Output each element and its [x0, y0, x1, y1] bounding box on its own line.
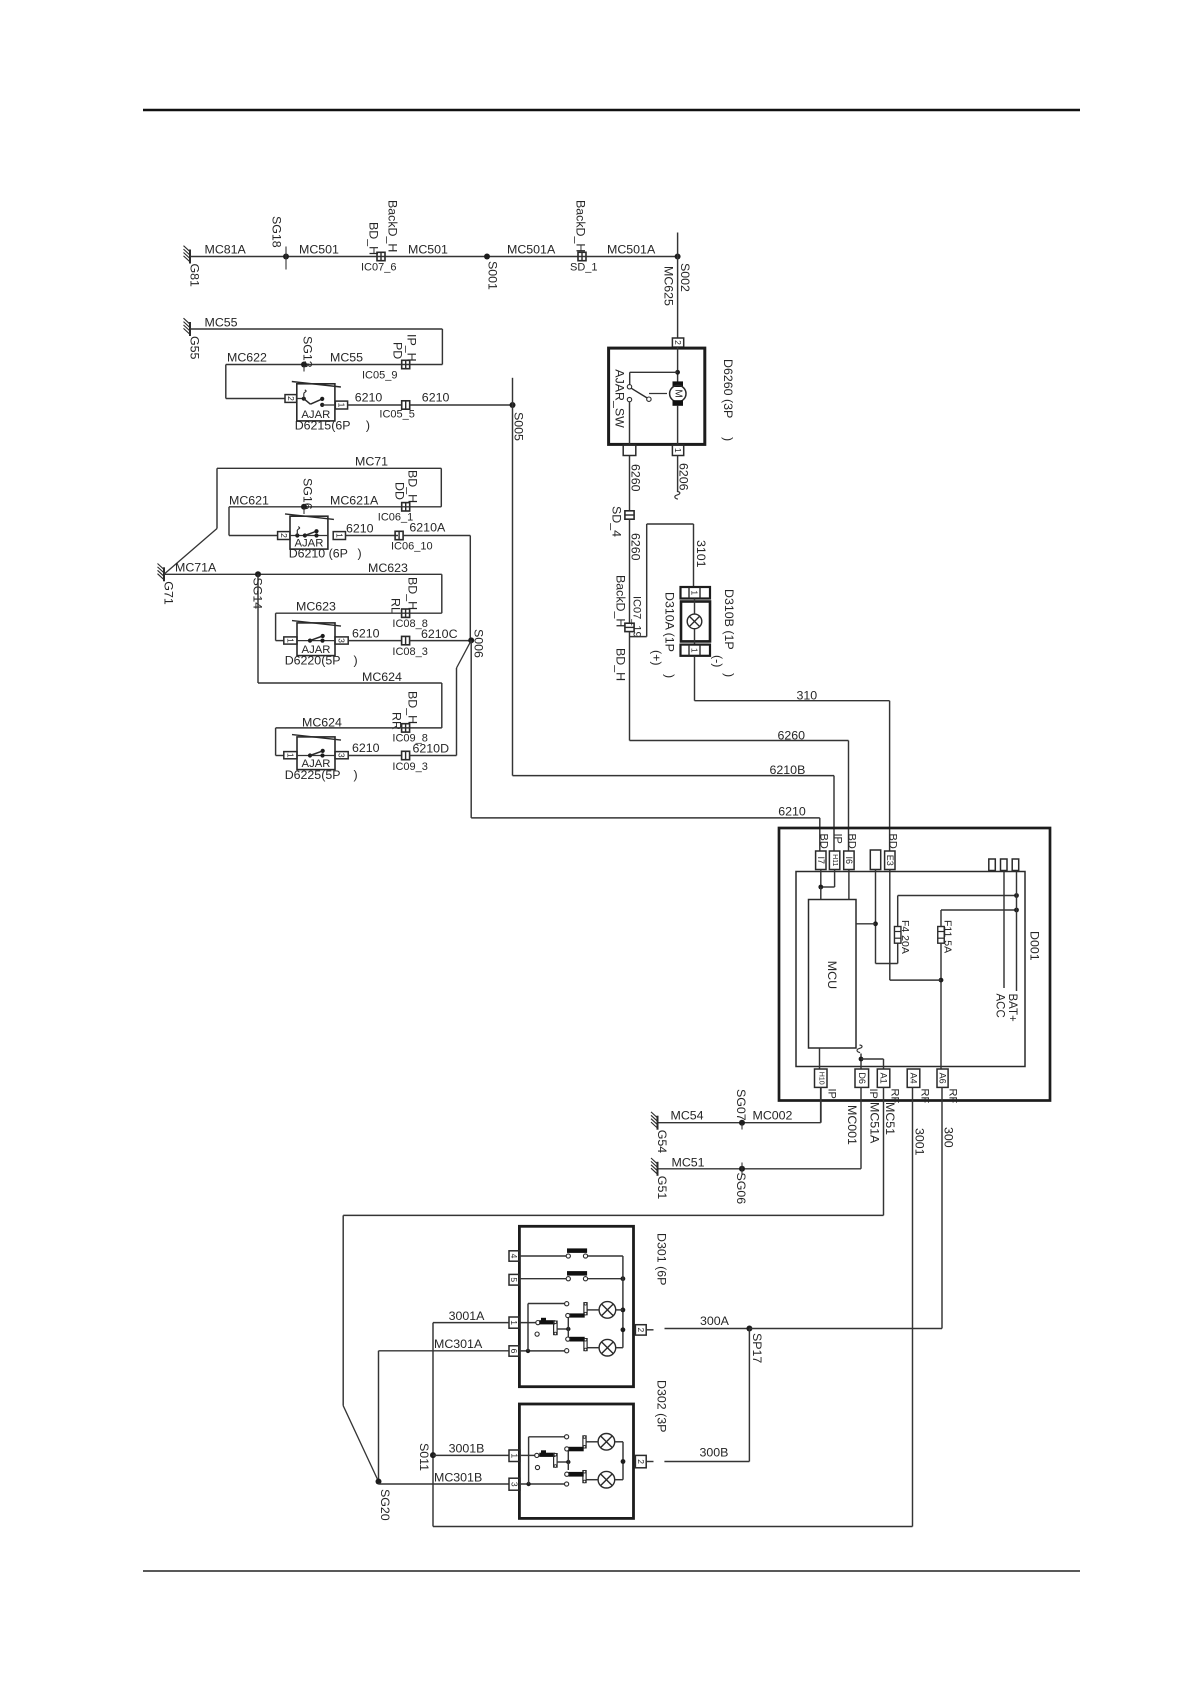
svg-text:300: 300	[942, 1127, 956, 1148]
svg-text:1: 1	[673, 448, 683, 453]
svg-text:BD_H: BD_H	[367, 222, 381, 255]
svg-text:6210: 6210	[422, 391, 450, 405]
svg-text:): )	[354, 768, 358, 782]
svg-text:A1: A1	[879, 1073, 889, 1084]
svg-text:3001A: 3001A	[449, 1309, 486, 1323]
svg-text:G71: G71	[162, 581, 176, 605]
svg-text:IC08_3: IC08_3	[392, 646, 427, 658]
svg-text:): )	[366, 419, 370, 433]
svg-text:3: 3	[337, 753, 347, 758]
svg-text:MC621A: MC621A	[330, 494, 379, 508]
svg-text:D6215(6P: D6215(6P	[295, 419, 351, 433]
svg-text:SG13: SG13	[301, 336, 315, 368]
svg-text:D6210 (6P: D6210 (6P	[289, 547, 348, 561]
svg-text:1: 1	[690, 590, 700, 595]
svg-text:IC07_6: IC07_6	[361, 262, 396, 274]
svg-text:): )	[721, 437, 735, 441]
svg-text:DD: DD	[393, 482, 407, 500]
svg-text:D310A (1P: D310A (1P	[663, 592, 677, 652]
svg-text:BackD_H: BackD_H	[386, 200, 400, 252]
svg-text:D6220(5P: D6220(5P	[285, 654, 341, 668]
svg-text:1: 1	[690, 648, 700, 653]
svg-text:BD_H: BD_H	[614, 648, 628, 681]
svg-text:IC07_19: IC07_19	[631, 596, 643, 638]
svg-text:A4: A4	[909, 1073, 919, 1084]
svg-text:S002: S002	[678, 263, 692, 292]
svg-text:D310B (1P: D310B (1P	[722, 589, 736, 650]
svg-text:D6260 (3P: D6260 (3P	[721, 359, 735, 418]
svg-text:MC623: MC623	[296, 600, 336, 614]
svg-text:MC501A: MC501A	[607, 243, 656, 257]
svg-text:D301 (6P: D301 (6P	[655, 1233, 669, 1285]
svg-text:MC71A: MC71A	[175, 561, 217, 575]
svg-text:6206: 6206	[677, 463, 691, 491]
svg-text:IP: IP	[826, 1089, 838, 1099]
svg-text:6210: 6210	[352, 741, 380, 755]
svg-text:MC81A: MC81A	[205, 243, 247, 257]
svg-text:MCU: MCU	[825, 961, 839, 989]
svg-text:6210: 6210	[346, 522, 374, 536]
svg-text:MC501A: MC501A	[507, 243, 556, 257]
svg-text:4: 4	[509, 1254, 519, 1259]
svg-text:): )	[354, 654, 358, 668]
svg-text:BD: BD	[887, 834, 899, 849]
svg-text:MC623: MC623	[368, 561, 408, 575]
svg-text:1: 1	[285, 753, 295, 758]
svg-text:G51: G51	[655, 1176, 669, 1200]
svg-text:SD_4: SD_4	[610, 506, 624, 537]
svg-text:D302 (3P: D302 (3P	[655, 1380, 669, 1432]
svg-text:SD_1: SD_1	[570, 262, 598, 274]
svg-text:6210: 6210	[352, 627, 380, 641]
svg-text:IP: IP	[867, 1089, 879, 1099]
svg-text:): )	[358, 547, 362, 561]
svg-text:6210C: 6210C	[421, 627, 458, 641]
svg-text:BD: BD	[817, 834, 829, 849]
svg-text:SG18: SG18	[270, 216, 284, 248]
svg-text:G55: G55	[188, 336, 202, 360]
svg-text:IP_H: IP_H	[405, 334, 419, 362]
svg-text:BackD_H: BackD_H	[614, 575, 628, 627]
svg-text:S005: S005	[512, 412, 526, 441]
svg-text:RF: RF	[946, 1089, 958, 1104]
svg-text:300A: 300A	[700, 1314, 730, 1328]
svg-text:6210: 6210	[778, 804, 806, 818]
svg-text:MC55: MC55	[330, 351, 363, 365]
svg-text:2: 2	[636, 1459, 646, 1464]
svg-text:D6225(5P: D6225(5P	[285, 768, 341, 782]
svg-text:MC301A: MC301A	[434, 1337, 483, 1351]
svg-text:6260: 6260	[629, 464, 643, 492]
svg-text:SP17: SP17	[750, 1333, 764, 1363]
svg-text:SG07: SG07	[734, 1089, 748, 1121]
svg-text:6210: 6210	[355, 391, 383, 405]
svg-text:3001B: 3001B	[449, 1442, 485, 1456]
svg-text:(+): (+)	[650, 650, 664, 666]
svg-text:F4 20A: F4 20A	[899, 920, 911, 954]
svg-text:S011: S011	[417, 1443, 431, 1471]
svg-text:BAT+: BAT+	[1006, 994, 1018, 1023]
svg-text:S001: S001	[486, 261, 500, 290]
svg-text:2: 2	[673, 340, 683, 345]
svg-text:): )	[722, 673, 736, 677]
svg-text:G81: G81	[188, 264, 202, 288]
svg-text:BD_H: BD_H	[406, 577, 420, 610]
svg-text:IC05_9: IC05_9	[362, 370, 397, 382]
svg-text:MC301B: MC301B	[434, 1471, 482, 1485]
svg-text:6260: 6260	[778, 729, 806, 743]
svg-text:SG16: SG16	[301, 478, 315, 510]
svg-text:RL: RL	[389, 598, 403, 614]
svg-text:MC51: MC51	[672, 1155, 705, 1169]
svg-text:3: 3	[337, 638, 347, 643]
svg-text:IC09_3: IC09_3	[392, 761, 427, 773]
svg-text:MC54: MC54	[671, 1109, 704, 1123]
svg-text:2: 2	[279, 533, 289, 538]
svg-text:SG20: SG20	[378, 1489, 392, 1521]
svg-text:RF: RF	[918, 1089, 930, 1104]
svg-text:2: 2	[286, 396, 296, 401]
svg-text:SG06: SG06	[734, 1173, 748, 1205]
svg-text:BD_H: BD_H	[406, 691, 420, 724]
svg-text:MC001: MC001	[845, 1105, 859, 1145]
svg-text:MC624: MC624	[362, 670, 402, 684]
svg-text:): )	[663, 674, 677, 678]
svg-text:1: 1	[285, 638, 295, 643]
svg-text:H11: H11	[831, 854, 838, 866]
svg-text:6210B: 6210B	[770, 763, 806, 777]
svg-text:6260: 6260	[629, 533, 643, 561]
svg-text:D001: D001	[1028, 931, 1042, 961]
svg-text:S006: S006	[472, 629, 486, 658]
svg-text:6210A: 6210A	[409, 521, 446, 535]
svg-text:1: 1	[510, 1453, 520, 1458]
svg-text:I6: I6	[844, 856, 854, 864]
svg-text:MC622: MC622	[227, 351, 267, 365]
svg-text:E3: E3	[885, 855, 895, 866]
svg-text:6210D: 6210D	[413, 742, 450, 756]
svg-text:IP: IP	[831, 834, 843, 844]
svg-text:ACC: ACC	[994, 994, 1006, 1018]
svg-text:BackD_H: BackD_H	[574, 200, 588, 252]
svg-text:I7: I7	[816, 856, 826, 864]
svg-text:1: 1	[509, 1320, 519, 1325]
svg-text:(-): (-)	[711, 655, 725, 667]
svg-text:BD_H: BD_H	[406, 470, 420, 503]
svg-text:MC621: MC621	[229, 494, 269, 508]
svg-text:2: 2	[636, 1328, 646, 1333]
svg-text:310: 310	[797, 689, 818, 703]
svg-text:1: 1	[336, 403, 346, 408]
svg-text:D6: D6	[857, 1072, 867, 1084]
svg-text:1: 1	[334, 533, 344, 538]
svg-text:IC06_10: IC06_10	[391, 541, 433, 553]
svg-text:5: 5	[509, 1277, 519, 1282]
svg-text:300B: 300B	[700, 1446, 729, 1460]
svg-text:MC625: MC625	[662, 266, 676, 306]
svg-text:3001: 3001	[913, 1128, 927, 1156]
svg-text:MC501: MC501	[299, 243, 339, 257]
svg-text:A6: A6	[938, 1073, 948, 1084]
svg-text:IC05_5: IC05_5	[379, 409, 414, 421]
svg-text:AJAR_SW: AJAR_SW	[613, 369, 627, 428]
svg-text:BD: BD	[846, 834, 858, 849]
svg-text:MC71: MC71	[355, 455, 388, 469]
svg-text:MC51A: MC51A	[867, 1102, 881, 1144]
svg-text:MC55: MC55	[205, 316, 238, 330]
svg-text:3: 3	[510, 1482, 520, 1487]
svg-text:3101: 3101	[694, 540, 708, 568]
svg-text:MC51: MC51	[883, 1102, 897, 1135]
svg-text:H10: H10	[817, 1072, 824, 1085]
svg-text:PD: PD	[391, 342, 405, 359]
svg-text:G54: G54	[655, 1130, 669, 1154]
svg-text:6: 6	[509, 1349, 519, 1354]
svg-text:IC06_1: IC06_1	[378, 512, 413, 524]
svg-text:M: M	[672, 389, 683, 397]
svg-text:F11 5A: F11 5A	[942, 920, 954, 953]
svg-text:MC002: MC002	[753, 1109, 793, 1123]
svg-text:MC501: MC501	[408, 243, 448, 257]
